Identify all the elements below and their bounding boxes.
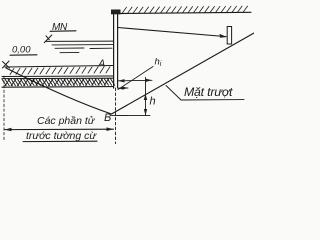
tie rod arrowhead [220, 34, 228, 38]
mat truot leader [166, 86, 244, 101]
band divider line 1 [2, 75, 113, 78]
underline label line 2 [23, 140, 97, 142]
svg-text:0,00: 0,00 [12, 45, 31, 56]
h dim top arrowhead [144, 94, 147, 101]
svg-text:Mặt trượt: Mặt trượt [184, 85, 233, 99]
band2 bottom line [2, 86, 113, 89]
wall dashed extension [115, 88, 117, 144]
left extension dashed line [3, 76, 5, 141]
right slip surface (mat truot) [112, 33, 255, 114]
sheet pile wall right line [117, 14, 119, 88]
band1 hatch [10, 67, 110, 75]
svg-text:A: A [98, 59, 106, 70]
left slip surface branch [6, 68, 112, 114]
right ground hatch [122, 6, 248, 13]
svg-text:trước tường cừ: trước tường cừ [26, 130, 97, 142]
sheet pile wall left line [113, 14, 115, 88]
bottom dimension arrow [5, 127, 114, 131]
deadman anchor block [227, 27, 231, 45]
svg-text:B: B [104, 112, 111, 124]
element dim line upper [118, 79, 152, 83]
water dash a [55, 47, 84, 49]
underline MN [50, 30, 76, 33]
underline 0,00 [10, 54, 37, 56]
h dim bottom arrowhead [144, 109, 147, 116]
water level symbol [44, 35, 52, 43]
water line [46, 40, 114, 42]
sheet pile wall cap [111, 10, 121, 15]
svg-text:h: h [150, 96, 156, 108]
dredge band top line [5, 66, 113, 68]
water dash d [60, 51, 79, 53]
band2 crosshatch [2, 79, 115, 86]
right ground line [119, 12, 251, 13]
band divider line 2 [2, 77, 113, 79]
tie rod [118, 28, 226, 37]
h dim bottom reference line [112, 114, 151, 116]
element dim line lower [118, 87, 128, 90]
h dimension vertical line [145, 78, 147, 116]
svg-text:Các phần tử: Các phần tử [37, 115, 96, 127]
water line 2 [52, 44, 114, 46]
h_i leader [118, 67, 153, 90]
datum x marker [3, 61, 10, 68]
water dash b [90, 47, 112, 49]
